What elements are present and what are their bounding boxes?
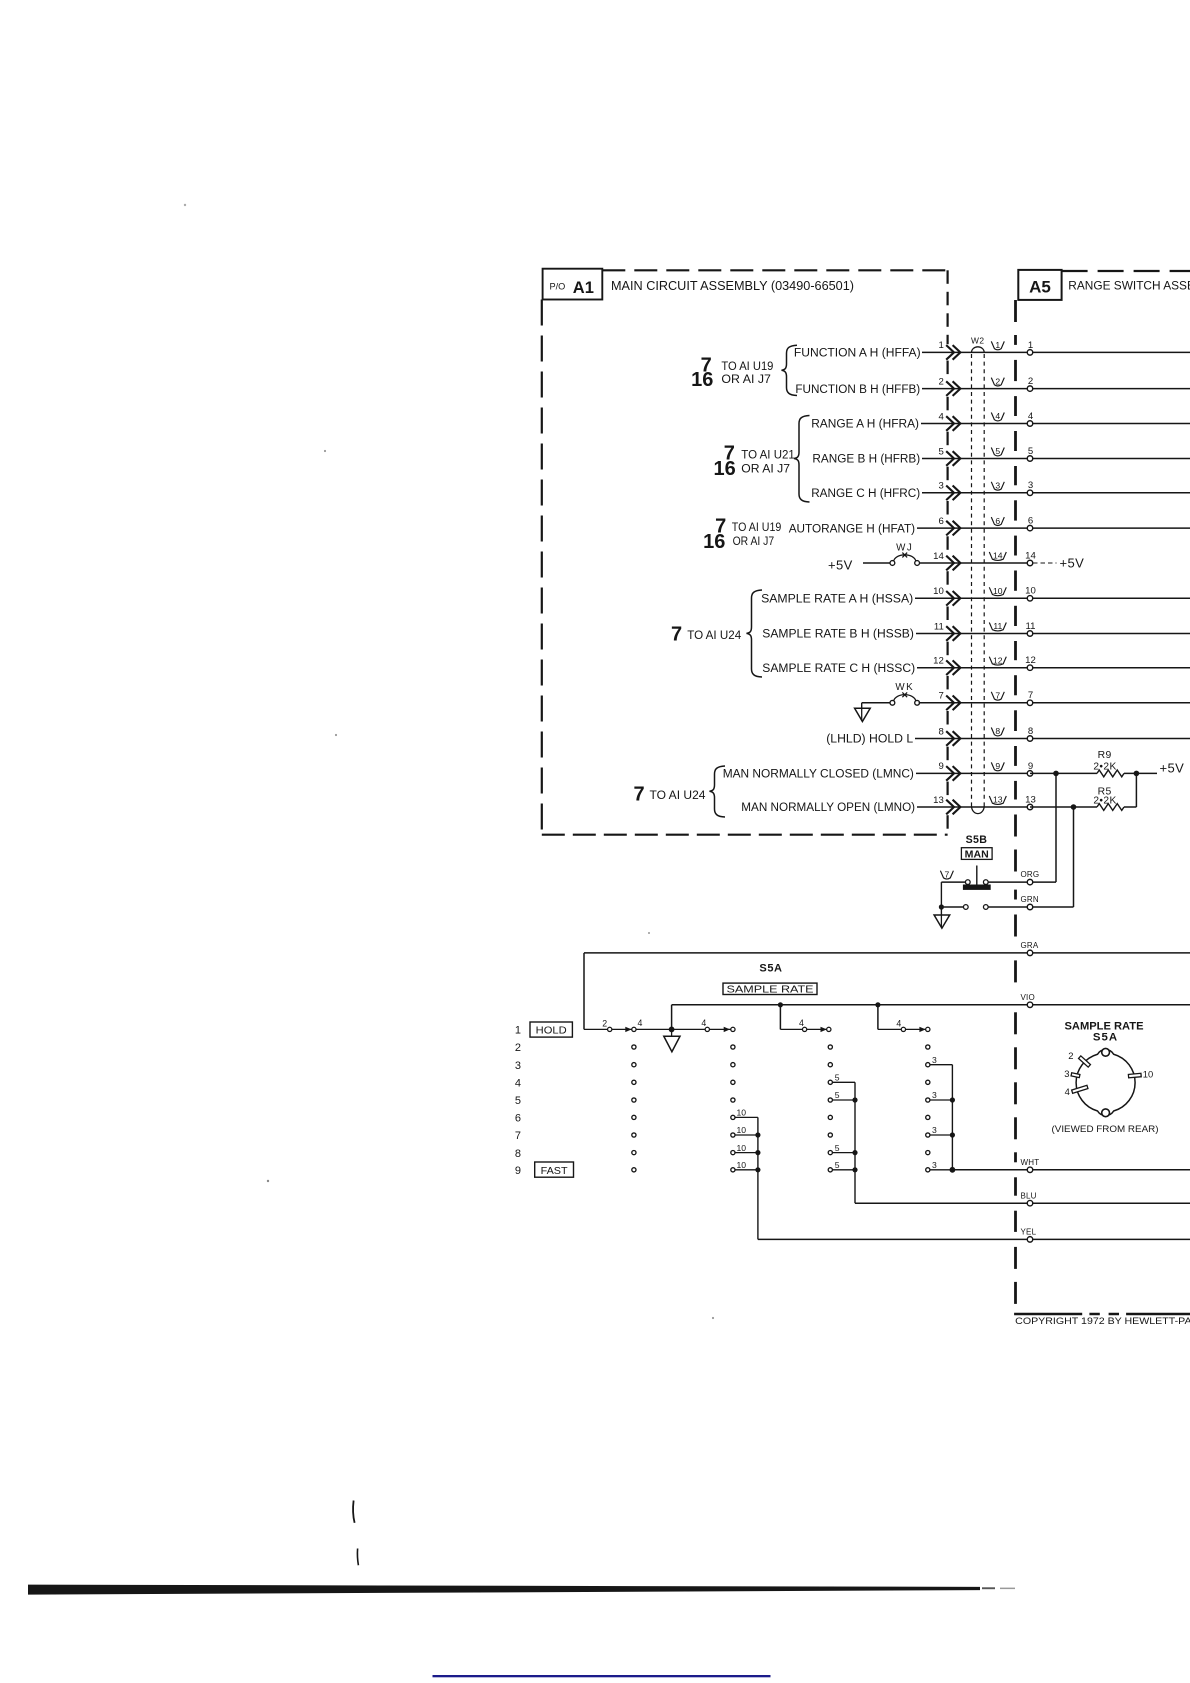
signal RANGE B H (HFRB) pin 5: [812, 446, 1190, 466]
S5A deck 3 contact column: [828, 1045, 832, 1172]
svg-text:S5B: S5B: [966, 834, 988, 846]
jumper WK to ground pin 7: [855, 682, 1190, 721]
svg-text:7: 7: [938, 691, 943, 702]
svg-text:11: 11: [1026, 621, 1036, 632]
svg-text:TO AI U24: TO AI U24: [687, 628, 741, 642]
cable W2 dashed lines: [972, 354, 985, 806]
svg-text:+5V: +5V: [828, 558, 853, 573]
signal FUNCTION B H (HFFB) pin 2: [795, 376, 1190, 396]
svg-text:16: 16: [703, 531, 725, 553]
node LMNO junction: [1071, 804, 1077, 810]
svg-text:BLU: BLU: [1021, 1191, 1037, 1200]
svg-text:MAN: MAN: [965, 849, 989, 860]
svg-text:1: 1: [515, 1025, 521, 1037]
svg-text:7: 7: [633, 783, 644, 805]
A1 title text: [611, 279, 854, 293]
svg-text:MAIN CIRCUIT ASSEMBLY (03490-6: MAIN CIRCUIT ASSEMBLY (03490-66501): [611, 279, 854, 293]
wire VIO: [672, 993, 1190, 1008]
svg-text:OR AI J7: OR AI J7: [741, 462, 790, 476]
svg-text:4: 4: [638, 1018, 643, 1028]
switch S5B MAN pushbutton: [961, 834, 992, 909]
svg-text:1: 1: [1028, 340, 1033, 351]
signal FUNCTION A H (HFFA) pin 1: [794, 340, 1190, 360]
wire GRN from S5B NO contact to LMNO: [988, 807, 1073, 907]
resistor R9 2.2K: [1093, 750, 1124, 777]
wire S5B common to ground: [941, 882, 965, 915]
svg-text:GRN: GRN: [1021, 895, 1039, 904]
svg-text:2: 2: [1028, 376, 1033, 387]
svg-text:2: 2: [1068, 1050, 1073, 1061]
svg-text:A1: A1: [573, 279, 594, 297]
svg-text:RANGE SWITCH ASSEMBLY: RANGE SWITCH ASSEMBLY: [1068, 279, 1190, 293]
signal SAMPLE RATE A H (HSSA) pin 10: [761, 586, 1190, 606]
S5A deck 4 wiper row: [896, 1019, 930, 1033]
signal MAN NORMALLY CLOSED (LMNC) pin 9: [723, 761, 1033, 781]
svg-text:1: 1: [995, 340, 1000, 350]
svg-text:7: 7: [945, 869, 950, 879]
svg-text:9: 9: [938, 761, 943, 772]
svg-text:MAN NORMALLY OPEN (LMNO): MAN NORMALLY OPEN (LMNO): [741, 800, 915, 814]
wire WHT: [952, 1158, 1190, 1173]
svg-text:9: 9: [995, 761, 1000, 771]
svg-text:4: 4: [799, 1018, 804, 1028]
brace + label TO A1U24 (sample rate): [671, 590, 762, 677]
svg-text:8: 8: [515, 1148, 521, 1160]
svg-text:FAST: FAST: [541, 1166, 568, 1177]
svg-text:3: 3: [932, 1160, 937, 1170]
signal SAMPLE RATE C H (HSSC) pin 12: [762, 655, 1190, 675]
S5A deck 1 wiper row: [584, 1018, 733, 1032]
svg-text:5: 5: [515, 1095, 521, 1107]
svg-text:VIO: VIO: [1021, 993, 1035, 1002]
switch S5A heading: [723, 963, 817, 996]
wire LMNO to R5: [1030, 806, 1136, 808]
svg-text:3: 3: [1028, 480, 1033, 491]
svg-text:10: 10: [737, 1108, 747, 1118]
node VIO to deck1 junction + ground: [664, 1005, 680, 1052]
signal AUTORANGE H (HFAT) pin 6: [789, 516, 1190, 536]
svg-text:4: 4: [701, 1018, 706, 1028]
svg-text:5: 5: [835, 1160, 840, 1170]
label TO A1U19 (autorange): [703, 516, 781, 553]
svg-text:YEL: YEL: [1021, 1228, 1037, 1237]
svg-text:2•2K: 2•2K: [1093, 761, 1116, 772]
node S5B ground junction: [939, 904, 944, 909]
svg-text:GRA: GRA: [1021, 941, 1039, 950]
S5A deck 4 wiper feed: [875, 1002, 927, 1029]
svg-text:13: 13: [1025, 794, 1036, 805]
svg-text:W2: W2: [971, 336, 985, 346]
signal RANGE C H (HFRC) pin 3: [811, 480, 1190, 500]
svg-text:12: 12: [933, 656, 944, 667]
label HOLD box: [530, 1022, 572, 1037]
brace + label TO A1U19 (function): [691, 345, 797, 395]
svg-text:OR AI J7: OR AI J7: [733, 534, 775, 548]
svg-text:2•2K: 2•2K: [1093, 795, 1116, 806]
svg-text:4: 4: [896, 1019, 901, 1029]
svg-text:14: 14: [1025, 550, 1036, 561]
A1 title box P/O A1: [543, 269, 603, 300]
svg-text:10: 10: [933, 586, 944, 597]
svg-text:R9: R9: [1098, 750, 1112, 761]
svg-text:RANGE B H (HFRB): RANGE B H (HFRB): [812, 452, 920, 466]
svg-text:12: 12: [993, 655, 1003, 665]
svg-text:2: 2: [995, 376, 1000, 386]
svg-text:3: 3: [932, 1090, 937, 1100]
svg-text:9: 9: [515, 1165, 521, 1177]
svg-text:5: 5: [835, 1143, 840, 1153]
svg-text:3: 3: [932, 1055, 937, 1065]
svg-text:2: 2: [938, 376, 943, 387]
svg-text:4: 4: [1065, 1086, 1070, 1097]
svg-text:8: 8: [938, 726, 943, 737]
svg-text:TO AI U21: TO AI U21: [741, 448, 795, 462]
node +5V junction: [1134, 771, 1140, 777]
svg-text:HOLD: HOLD: [536, 1026, 567, 1037]
svg-text:8: 8: [995, 726, 1000, 736]
svg-text:1: 1: [938, 340, 943, 351]
S5A deck 4 contacts 3 bus to WHT: [930, 1055, 955, 1173]
wire LMNC to R9 and +5V: [1030, 760, 1184, 775]
svg-text:10: 10: [1143, 1068, 1153, 1079]
node LMNC junction: [1053, 771, 1059, 777]
svg-text:7: 7: [515, 1130, 521, 1142]
svg-text:7: 7: [995, 691, 1000, 701]
svg-text:S5A: S5A: [759, 963, 782, 975]
svg-text:FUNCTION B H (HFFB): FUNCTION B H (HFFB): [795, 382, 920, 396]
signal (LHLD) HOLD L pin 8: [826, 726, 1190, 746]
svg-text:SAMPLE RATE A H (HSSA): SAMPLE RATE A H (HSSA): [761, 592, 913, 606]
wire GRA: [584, 941, 1190, 1030]
svg-text:6: 6: [1028, 516, 1033, 527]
svg-text:4: 4: [1028, 411, 1034, 422]
signal MAN NORMALLY OPEN (LMNO) pin 13: [741, 794, 1036, 814]
svg-text:3: 3: [515, 1060, 521, 1072]
svg-text:10: 10: [993, 586, 1003, 596]
svg-text:4: 4: [995, 411, 1000, 421]
svg-text:RANGE A H (HFRA): RANGE A H (HFRA): [811, 417, 919, 431]
svg-text:5: 5: [1028, 446, 1033, 457]
resistor R5 2.2K: [1093, 787, 1124, 811]
brace + label TO A1U21 (range): [714, 416, 810, 503]
svg-text:RANGE C H (HFRC): RANGE C H (HFRC): [811, 486, 920, 500]
ground at S5B: [934, 915, 950, 928]
svg-text:ORG: ORG: [1021, 870, 1040, 879]
A5 title text: [1068, 279, 1190, 293]
svg-text:3: 3: [932, 1125, 937, 1135]
svg-text:3: 3: [938, 481, 943, 492]
svg-text:5: 5: [835, 1090, 840, 1100]
svg-text:10: 10: [737, 1160, 747, 1170]
svg-text:10: 10: [737, 1143, 747, 1153]
svg-text:9: 9: [1028, 761, 1033, 772]
svg-text:TO AI U19: TO AI U19: [732, 520, 782, 534]
svg-text:S5A: S5A: [1093, 1032, 1118, 1044]
svg-text:OR AI J7: OR AI J7: [721, 372, 771, 386]
assembly A1 dashed border: [542, 270, 948, 834]
svg-text:SAMPLE RATE B H (HSSB): SAMPLE RATE B H (HSSB): [762, 627, 914, 641]
svg-text:(LHLD) HOLD L: (LHLD) HOLD L: [826, 732, 913, 746]
cable W2 label and top arc: [971, 336, 985, 353]
S5A deck 2 contact column: [731, 1045, 735, 1172]
terminal GRN: [1021, 895, 1039, 910]
svg-text:SAMPLE RATE C H (HSSC): SAMPLE RATE C H (HSSC): [762, 661, 915, 675]
svg-text:+5V: +5V: [1060, 555, 1085, 570]
svg-text:WK: WK: [895, 682, 914, 693]
svg-text:5: 5: [938, 446, 943, 457]
wire YEL: [758, 1228, 1190, 1243]
svg-text:WHT: WHT: [1021, 1158, 1040, 1167]
S5A deck 2 wiper row: [701, 1018, 735, 1032]
svg-text:7: 7: [1028, 690, 1033, 701]
S5A rotary switch rear view pictorial: [1052, 1021, 1159, 1135]
S5A deck 3 contacts 5 bus to BLU: [833, 1073, 858, 1204]
svg-text:TO AI U19: TO AI U19: [721, 359, 773, 373]
A5 title box: [1018, 270, 1061, 300]
+5V line with jumper WJ pin 14: [828, 542, 1084, 572]
svg-text:5: 5: [835, 1073, 840, 1083]
svg-text:COPYRIGHT 1972 BY HEWLETT-PACK: COPYRIGHT 1972 BY HEWLETT-PACKARD: [1015, 1315, 1190, 1326]
svg-text:10: 10: [737, 1125, 747, 1135]
svg-text:8: 8: [1028, 726, 1033, 737]
svg-text:13: 13: [933, 795, 944, 806]
brace + label TO A1U24 (man): [633, 766, 725, 817]
svg-text:16: 16: [691, 369, 713, 391]
S5A deck 2 contacts 10 bus to YEL: [735, 1108, 760, 1240]
assembly A5 dashed border: [1014, 271, 1190, 1314]
S5A deck 4 contact column: [926, 1045, 930, 1172]
svg-text:14: 14: [993, 551, 1003, 561]
svg-text:2: 2: [602, 1019, 607, 1029]
svg-text:16: 16: [714, 458, 736, 480]
svg-text:11: 11: [934, 621, 944, 632]
terminal ORG: [1021, 870, 1040, 885]
svg-text:4: 4: [515, 1078, 521, 1090]
copyright text: [1015, 1315, 1190, 1326]
svg-text:FUNCTION A H (HFFA): FUNCTION A H (HFFA): [794, 346, 921, 360]
svg-text:12: 12: [1025, 655, 1036, 666]
svg-text:3: 3: [995, 481, 1000, 491]
svg-text:SAMPLE RATE: SAMPLE RATE: [727, 984, 814, 995]
signal SAMPLE RATE B H (HSSB) pin 11: [762, 621, 1190, 641]
S5A deck 3 wiper feed: [778, 1002, 829, 1029]
svg-text:6: 6: [938, 516, 943, 527]
svg-text:13: 13: [993, 795, 1003, 805]
S5A deck 1 contact column: [632, 1045, 636, 1172]
svg-text:10: 10: [1025, 586, 1036, 597]
svg-text:WJ: WJ: [896, 542, 913, 553]
svg-text:(VIEWED FROM REAR): (VIEWED FROM REAR): [1052, 1124, 1159, 1134]
svg-text:5: 5: [995, 446, 1000, 456]
svg-text:MAN NORMALLY CLOSED (LMNC): MAN NORMALLY CLOSED (LMNC): [723, 767, 914, 781]
S5A position number column: [515, 1025, 521, 1177]
svg-text:P/O: P/O: [550, 281, 566, 291]
wire BLU: [855, 1191, 1190, 1206]
svg-text:AUTORANGE H (HFAT): AUTORANGE H (HFAT): [789, 521, 915, 535]
svg-text:3: 3: [1064, 1068, 1069, 1079]
svg-text:4: 4: [938, 411, 944, 422]
wire ORG from S5B NC contact to LMNC: [988, 773, 1056, 882]
svg-text:14: 14: [933, 551, 944, 562]
cable wire label 7 at S5B: [940, 869, 953, 879]
S5A deck 3 wiper row: [799, 1018, 831, 1032]
wire R5 output up to +5V node: [1135, 773, 1137, 807]
svg-text:6: 6: [995, 516, 1000, 526]
svg-text:7: 7: [671, 623, 682, 645]
svg-text:A5: A5: [1029, 278, 1051, 297]
svg-text:11: 11: [993, 621, 1002, 631]
cable W2 bottom loop: [972, 806, 985, 814]
svg-text:6: 6: [515, 1113, 521, 1125]
label FAST box: [535, 1162, 574, 1177]
signal RANGE A H (HFRA) pin 4: [811, 411, 1190, 431]
svg-text:2: 2: [515, 1042, 521, 1054]
svg-text:TO AI U24: TO AI U24: [650, 788, 706, 802]
svg-text:+5V: +5V: [1160, 760, 1185, 775]
